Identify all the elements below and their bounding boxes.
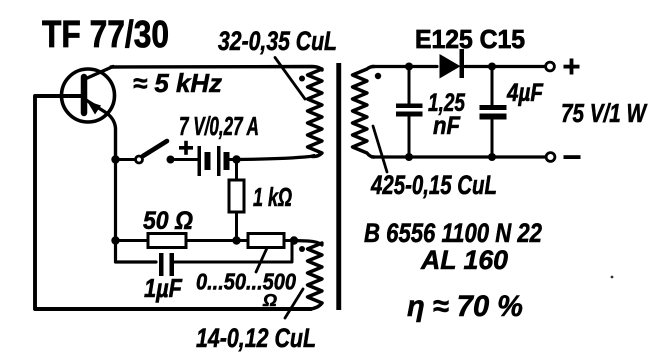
svg-text:E125 C15: E125 C15 [415,24,525,54]
svg-text:4µF: 4µF [506,79,543,107]
svg-text:nF: nF [433,112,461,140]
svg-text:14-0,12 CuL: 14-0,12 CuL [196,323,316,353]
svg-text:B 6556 1100 N 22: B 6556 1100 N 22 [364,218,542,248]
svg-text:32-0,35 CuL: 32-0,35 CuL [218,26,337,56]
svg-text:50 Ω: 50 Ω [143,207,193,235]
svg-text:1µF: 1µF [144,273,183,303]
svg-text:425-0,15 CuL: 425-0,15 CuL [370,170,497,200]
svg-text:7 V/0,27 A: 7 V/0,27 A [179,111,259,141]
svg-text:0...50...500: 0...50...500 [196,269,296,295]
svg-text:≈ 5 kHz: ≈ 5 kHz [133,68,222,98]
svg-text:1 kΩ: 1 kΩ [253,182,292,212]
svg-text:Ω: Ω [262,290,277,310]
svg-text:AL 160: AL 160 [420,245,508,275]
svg-text:TF 77/30: TF 77/30 [42,14,169,56]
svg-text:η ≈ 70 %: η ≈ 70 % [407,290,523,323]
svg-text:75 V/1 W: 75 V/1 W [561,98,648,128]
